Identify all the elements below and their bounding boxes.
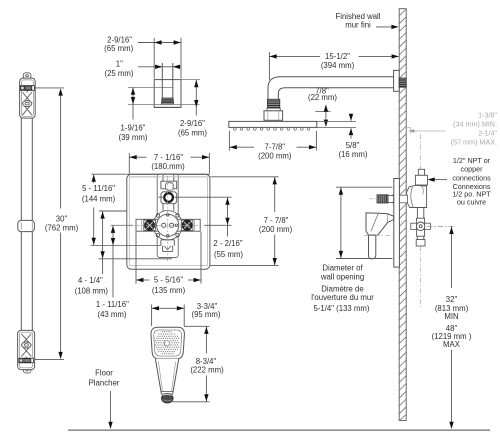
arm nipple in wall [399, 78, 406, 87]
handle (side lever) [366, 213, 394, 235]
svg-text:(39 mm): (39 mm) [118, 133, 147, 142]
svg-text:32": 32" [446, 295, 458, 304]
elbow hose nut (ribbed) [162, 98, 174, 104]
dimension 2-9/16in (65 mm) height [181, 79, 200, 81]
svg-text:(200 mm): (200 mm) [258, 152, 292, 161]
svg-text:(55 mm): (55 mm) [214, 250, 243, 259]
dimension 8-3/4in (222 mm) [184, 325, 210, 327]
svg-text:(25 mm): (25 mm) [104, 69, 133, 78]
svg-text:mur fini: mur fini [345, 21, 371, 30]
mounting bracket [136, 219, 200, 231]
dimension 7-1/16in (180 mm) [129, 153, 209, 173]
dimension 7-7/8in (200 mm) valve plate height [210, 177, 278, 266]
dimension 4-1/4in (108 mm) [99, 210, 126, 212]
dimension 32in / 48in to floor [428, 225, 456, 227]
shower arm threaded end [267, 99, 280, 111]
slide bar tube [21, 96, 32, 355]
supply top fitting (1/2in NPT) [415, 175, 427, 185]
svg-text:l'ouverture du mur: l'ouverture du mur [311, 293, 374, 302]
trim plate (side) [394, 179, 400, 268]
outlet fitting below valve [161, 240, 174, 252]
svg-text:7 - 7/8": 7 - 7/8" [264, 216, 289, 225]
dimension 7-7/8in (200 mm) head width [229, 131, 316, 151]
svg-text:(200 mm): (200 mm) [259, 225, 293, 234]
svg-text:1-9/16": 1-9/16" [121, 124, 146, 133]
svg-text:(135 mm): (135 mm) [152, 286, 186, 295]
dimension 1-9/16in (39 mm) [132, 87, 134, 119]
stem passage through wall [392, 195, 408, 203]
riser below nut [163, 204, 174, 211]
dimension 1-11/16in (43 mm) [111, 224, 133, 226]
slide bar top bracket [20, 73, 36, 118]
left port nut [144, 220, 156, 230]
dimension 3-3/4in (95 mm) [152, 305, 185, 327]
svg-text:(22 mm): (22 mm) [308, 93, 337, 102]
svg-text:2-1/4": 2-1/4" [478, 129, 497, 138]
handshower [151, 327, 184, 403]
svg-text:Diameter of: Diameter of [322, 264, 363, 273]
supply centreline upper [419, 134, 421, 169]
svg-text:5 - 11/16": 5 - 11/16" [82, 184, 115, 193]
svg-text:(180,mm): (180,mm) [151, 162, 185, 171]
wire floor line [68, 429, 490, 431]
valve stem (splined) [388, 196, 394, 203]
svg-text:(65 mm): (65 mm) [178, 128, 207, 137]
svg-text:2-9/16": 2-9/16" [107, 35, 132, 44]
bottom holder band [19, 358, 34, 363]
svg-text:MIN: MIN [444, 312, 458, 321]
floor pointer arrow left [110, 391, 112, 423]
svg-text:(34 mm) MIN.: (34 mm) MIN. [453, 120, 497, 129]
svg-text:2 - 2/16": 2 - 2/16" [213, 239, 242, 248]
supply centreline lower [419, 246, 421, 307]
elbow baseline extension [128, 103, 200, 105]
cartridge ports [162, 223, 166, 227]
shower head (rain head, side view) [229, 121, 317, 130]
dimension 30in (762 mm) [35, 88, 65, 360]
cartridge circle [157, 214, 179, 236]
svg-text:1": 1" [116, 60, 123, 69]
spray face dots [155, 331, 179, 354]
svg-text:5-1/4" (133 mm): 5-1/4" (133 mm) [313, 304, 369, 313]
handshower head [151, 327, 184, 359]
svg-text:copper: copper [461, 165, 484, 174]
svg-text:(108 mm): (108 mm) [75, 286, 109, 295]
right port nut [181, 220, 193, 230]
dimension 5-1/4in wall opening [336, 187, 392, 258]
valve mounting strip [157, 174, 178, 258]
svg-text:(65 mm): (65 mm) [104, 44, 133, 53]
stem centreline [370, 198, 377, 200]
riser pipe top [163, 174, 174, 181]
svg-text:MAX: MAX [443, 340, 461, 349]
svg-text:1 - 11/16": 1 - 11/16" [96, 300, 129, 309]
union ring [164, 193, 173, 202]
dimension 2-2/16in (55 mm) [159, 197, 232, 236]
trim plate inner outline [129, 177, 207, 266]
top holder band [20, 86, 34, 91]
slide bar slider [18, 220, 35, 231]
svg-text:wall opening: wall opening [320, 273, 364, 282]
dimension 2-9/16in (65 mm) width [138, 38, 181, 79]
valve centrelines [167, 176, 169, 261]
handshower handle [155, 359, 178, 392]
service stop valve [417, 218, 425, 236]
dimension 1-3/8 2-1/4 wall depth (grey) [404, 127, 446, 133]
dimension 5-11/16in (144 mm) [92, 173, 127, 175]
elbow contour line [128, 86, 173, 88]
guard top edge overlay [127, 173, 210, 175]
knurled inlet tip [162, 394, 174, 404]
svg-text:4 - 1/4": 4 - 1/4" [78, 276, 103, 285]
svg-text:(43 mm): (43 mm) [97, 310, 126, 319]
svg-text:(222 mm): (222 mm) [190, 365, 224, 374]
flange bottom edge [154, 106, 181, 108]
svg-text:Floor: Floor [95, 369, 113, 378]
svg-text:(16 mm): (16 mm) [338, 150, 367, 159]
elbow flange [154, 80, 181, 108]
slide bar bottom bracket [18, 330, 35, 373]
svg-text:7 - 1/16": 7 - 1/16" [154, 153, 183, 162]
handle collar [161, 391, 173, 394]
plaster guard [127, 174, 210, 269]
wall (finished wall, hatched section) [399, 9, 406, 421]
pipe body to stop valve [417, 208, 423, 219]
supply pipe top neck [418, 169, 424, 175]
valve body (side) [406, 185, 426, 207]
svg-text:ou cuivre: ou cuivre [457, 197, 486, 206]
dimension 5/8in (16 mm) head thickness [317, 120, 356, 122]
shower arm [268, 77, 394, 100]
wall flange of arm [394, 70, 400, 91]
union nut [161, 192, 177, 204]
dimension 5-5/16in (135 mm) [136, 232, 201, 284]
svg-text:(144 mm): (144 mm) [82, 194, 116, 203]
shower head collar [264, 111, 283, 121]
valve body circle [153, 211, 182, 240]
trim screws [156, 214, 159, 217]
svg-text:2-9/16": 2-9/16" [180, 119, 205, 128]
pipe coupling [161, 181, 177, 189]
svg-text:(95 mm): (95 mm) [191, 310, 220, 319]
dimension 1in (25 mm) tube width [138, 66, 181, 68]
svg-text:1-3/8": 1-3/8" [478, 111, 497, 120]
svg-text:(762 mm): (762 mm) [45, 224, 79, 233]
svg-text:(57 mm) MAX.: (57 mm) MAX. [451, 138, 497, 147]
dimension 15-1/2in (394 mm) [269, 52, 398, 80]
leader to wall [376, 26, 393, 28]
svg-text:(394 mm): (394 mm) [321, 61, 355, 70]
elbow drop tube [162, 63, 173, 98]
svg-text:Plancher: Plancher [89, 379, 120, 388]
leader to top fitting [434, 179, 447, 181]
svg-text:7-7/8": 7-7/8" [265, 143, 286, 152]
svg-text:5 - 5/16": 5 - 5/16" [154, 276, 183, 285]
pipe below stop [417, 236, 423, 239]
svg-text:30": 30" [56, 215, 68, 224]
